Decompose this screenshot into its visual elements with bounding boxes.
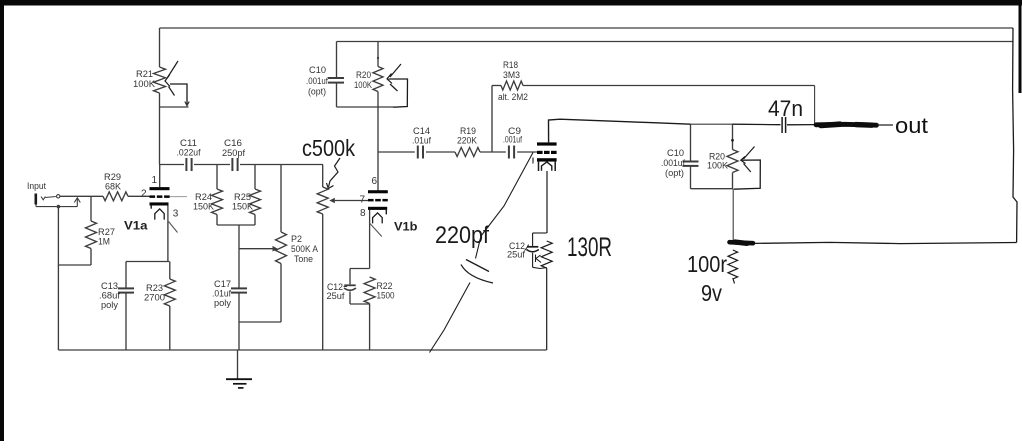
heavy out lead [816, 124, 877, 125]
hand tick at V1a cathode [169, 222, 178, 233]
svg-text:Tone: Tone [294, 254, 313, 265]
svg-text:25uf: 25uf [507, 250, 525, 261]
svg-text:220K: 220K [457, 136, 478, 147]
annotation 100r [687, 251, 727, 277]
wire: divider node down to C17 [238, 225, 240, 288]
wire: second supply rail [337, 41, 1013, 43]
svg-text:220pf: 220pf [435, 222, 489, 249]
tube V1b plate (pin 6) [368, 176, 388, 193]
capacitor C10 .001uf (opt) top block [306, 42, 344, 108]
svg-text:1: 1 [152, 175, 158, 186]
svg-text:.01uf: .01uf [412, 136, 431, 147]
svg-text:alt. 2M2: alt. 2M2 [498, 92, 528, 103]
capacitor C12 25uf (follower bypass) [507, 233, 547, 269]
svg-text:130R: 130R [567, 232, 612, 262]
svg-text:100K: 100K [707, 161, 729, 172]
wire: block to 47n cap [770, 124, 781, 126]
resistor R25 150K [232, 165, 261, 226]
capacitor C10 .001uf (opt) right block [661, 124, 699, 189]
svg-text:8: 8 [360, 208, 366, 219]
capacitor C12 25uf (V1b cathode bypass) [327, 269, 370, 305]
tube follower grid (hand-drawn) [537, 151, 557, 154]
ground symbol [226, 350, 252, 388]
svg-text:250pf: 250pf [222, 148, 245, 159]
wire: P2 wiper to divider node [239, 246, 278, 252]
svg-text:9v: 9v [701, 280, 722, 306]
wire: P2 bottom to ground leg [239, 321, 281, 323]
svg-text:out: out [895, 113, 929, 138]
wire: plate node rail to volume pot [160, 164, 324, 166]
tube V1a cathode (pin 3) [150, 202, 179, 221]
resistor R18 3M3 (alt. 2M2) [492, 60, 528, 103]
resistor R19 220K [455, 126, 480, 157]
wire: R21 bottom to V1a plate [160, 93, 189, 165]
wire: R19 to C9 [480, 151, 506, 153]
tube V1b grid (pin 7) [360, 195, 388, 206]
wire: C14 to R19 [426, 151, 455, 153]
heavy junction blob [730, 242, 754, 243]
svg-text:3: 3 [173, 209, 179, 220]
tube V1a grid (pin 2) [141, 189, 187, 200]
hand tick at V1b cathode [370, 223, 382, 237]
label V1b [394, 220, 418, 234]
svg-text:(opt): (opt) [665, 168, 684, 179]
svg-text:100r: 100r [687, 251, 727, 277]
capacitor C16 250pf [222, 138, 245, 171]
wire: jack tip to R29 [60, 195, 103, 197]
resistor R20 100K (pot, V1b plate load) [354, 42, 383, 108]
resistor R23 2700 [144, 262, 175, 351]
annotation c500k [302, 135, 355, 161]
svg-text:.001uf: .001uf [503, 135, 522, 146]
wire: hand-drawn 9v feed along bottom right [754, 242, 1017, 243]
svg-text:C10: C10 [309, 65, 326, 76]
input jack J1 [35, 194, 78, 209]
tube V1a plate (pin 1) [150, 165, 170, 191]
wire: jack sleeve down to ground rail [57, 208, 59, 350]
svg-text:1M: 1M [98, 237, 110, 248]
svg-text:poly: poly [101, 300, 118, 311]
resistor R22 1500 [364, 277, 394, 350]
resistor R21 100K (pot) [133, 67, 166, 93]
svg-text:25uf: 25uf [327, 291, 345, 302]
capacitor C17 .01uf poly [212, 279, 247, 350]
wire: out lead tail [877, 124, 893, 126]
capacitor C13 .68uf poly [99, 262, 134, 351]
wire: follower plate up to out line (hand) [549, 119, 691, 142]
wire: right block bottom down to 100r [732, 189, 734, 240]
svg-text:100K: 100K [133, 79, 156, 90]
wire: 47n to out junction [787, 124, 815, 126]
potentiometer volume (c500k) [317, 165, 328, 351]
hand wiper of right R20 tied to bottom [734, 147, 760, 190]
svg-text:(opt): (opt) [308, 87, 326, 98]
capacitor C9 .001uf [503, 126, 522, 159]
annotation 9v [701, 280, 722, 306]
svg-text:2: 2 [141, 189, 147, 200]
wire: V1a cathode down to C13/R23 bar [167, 221, 169, 261]
svg-text:.022uf: .022uf [177, 148, 201, 159]
svg-text:100K: 100K [354, 80, 372, 91]
svg-text:150K: 150K [232, 202, 254, 213]
wire: output node drop [814, 86, 816, 125]
resistor follower cathode (130R) [541, 241, 552, 350]
capacitor C14 .01uf [412, 126, 431, 159]
wire: bottom of top C10/R20 block [337, 106, 395, 108]
wire: hand-drawn 9v feed down right side [1013, 28, 1017, 243]
tube follower cathode (hand-drawn) [533, 158, 557, 172]
svg-text:3M3: 3M3 [503, 70, 520, 81]
svg-text:150K: 150K [193, 202, 215, 213]
hand K mark [536, 255, 542, 263]
wire: R29 to V1a grid pin 2 [128, 195, 150, 197]
wire: C13-R23 top bar [126, 261, 170, 263]
annotation out [895, 113, 929, 138]
wire: out line through right block top [691, 123, 771, 125]
svg-text:68K: 68K [105, 182, 122, 193]
wire: follower cathode down [546, 171, 548, 233]
hand capacitor 220pf [461, 260, 493, 284]
svg-text:6: 6 [372, 176, 378, 187]
resistor 100r (hand) [728, 250, 738, 284]
resistor R29 68K [103, 172, 128, 201]
hand arrow from c500k to volume pot [327, 158, 341, 189]
resistor R20 100K (right block pot) [707, 124, 738, 189]
svg-text:.001uf: .001uf [306, 76, 328, 87]
wire: ground rail [58, 349, 546, 351]
svg-text:2700: 2700 [144, 293, 165, 304]
wire: volume wiper to V1b grid pin 7 [329, 198, 368, 204]
wire: C9 to follower grid [517, 151, 537, 153]
tube follower plate (hand-drawn) [537, 142, 557, 145]
annotation 47n [768, 96, 803, 121]
wire: rail drop to R21 [159, 28, 161, 67]
capacitor 47n (hand) [782, 117, 786, 133]
wire: R18 right rail to output node [523, 85, 815, 87]
wire: R24/R25 bottom bar [217, 224, 255, 226]
svg-text:V1b: V1b [394, 220, 418, 234]
svg-text:47n: 47n [768, 96, 803, 121]
svg-text:c500k: c500k [302, 135, 355, 161]
potentiometer P2 500K A Tone [276, 165, 319, 323]
svg-text:1500: 1500 [377, 291, 395, 302]
svg-text:poly: poly [214, 298, 231, 309]
wire: right block bottom [691, 188, 734, 190]
tube V1b cathode (pin 8) [360, 207, 387, 269]
label Input [27, 181, 46, 192]
wire: top supply rail [160, 27, 1014, 29]
capacitor C11 .022uf [177, 138, 201, 171]
wire: V1b plate to C14 [378, 151, 415, 153]
junction dot on right R20 leg [731, 139, 734, 142]
hand wiper of R21 tied to bottom [165, 61, 189, 106]
jack switch contact arrow [74, 198, 80, 207]
wire: R18 left leg down to chain node [491, 86, 493, 153]
svg-text:7: 7 [360, 195, 366, 206]
hand wiper of top R20 tied to bottom [387, 64, 408, 107]
annotation 130R [567, 232, 612, 262]
annotation 220pf [435, 222, 489, 249]
wire: R27 bottom to ground branch [58, 264, 91, 266]
resistor R24 150K [193, 165, 223, 226]
label V1a [124, 219, 148, 233]
hand wire: diagonal from ground rail to follower grid [430, 153, 534, 353]
svg-text:Input: Input [27, 181, 46, 192]
wire: V1b plate lead [377, 107, 379, 190]
svg-text:V1a: V1a [124, 219, 148, 233]
resistor R27 1M [86, 196, 116, 265]
